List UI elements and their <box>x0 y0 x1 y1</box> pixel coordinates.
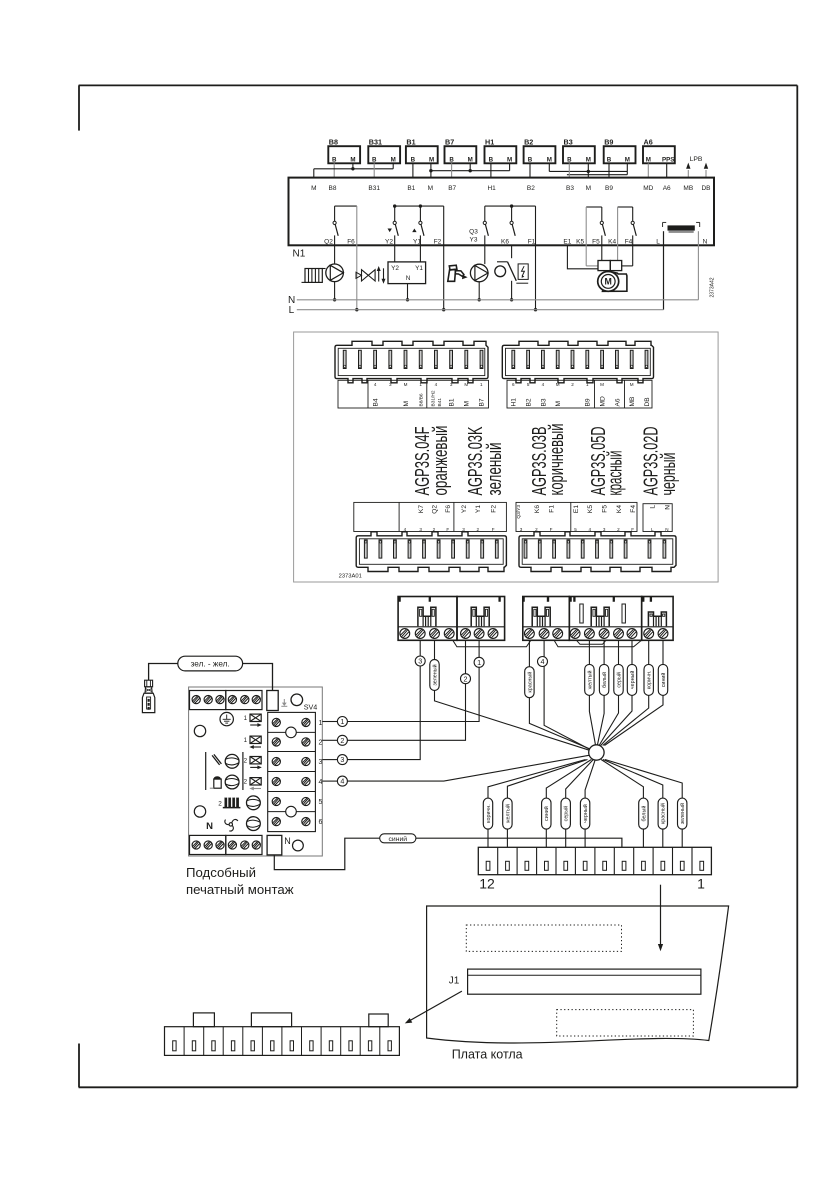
svg-text:B8: B8 <box>329 137 338 146</box>
wire to earth plug <box>149 664 178 681</box>
connector code AGP3S.03B коричневый <box>529 424 568 496</box>
svg-text:F1: F1 <box>548 505 555 513</box>
svg-text:коричневый: коричневый <box>546 424 568 496</box>
callout 1 aux <box>337 717 347 727</box>
svg-text:B7: B7 <box>445 137 454 146</box>
sensor B7 <box>445 137 477 163</box>
svg-text:B9: B9 <box>604 137 613 146</box>
pump circle 1 <box>225 754 239 768</box>
svg-text:1: 1 <box>244 737 248 744</box>
wire зеленый to plug X10 <box>605 760 682 848</box>
svg-text:зеленый: зеленый <box>484 443 506 496</box>
svg-text:M: M <box>403 401 410 407</box>
svg-text:N: N <box>406 275 411 282</box>
SV4 circle <box>291 694 303 706</box>
svg-text:5: 5 <box>527 382 530 387</box>
svg-text:1: 1 <box>340 717 344 726</box>
connector code AGP3S.02D черный <box>641 427 681 496</box>
svg-text:F4: F4 <box>630 505 637 513</box>
connector code AGP3S.05D красный <box>588 427 626 496</box>
svg-text:1: 1 <box>586 382 589 387</box>
faucet icon <box>448 265 468 281</box>
label green-yellow <box>178 656 243 671</box>
callout 3 on wire <box>415 656 425 666</box>
border frame left bottom tick <box>78 1044 80 1088</box>
callout 2 aux <box>337 735 347 745</box>
wire row 1 <box>322 721 337 723</box>
wire желтый to plug X10 <box>507 760 587 848</box>
svg-text:12: 12 <box>479 876 495 892</box>
svg-text:Q3: Q3 <box>469 229 478 236</box>
svg-text:M: M <box>555 401 562 407</box>
cable duct TB4 to TB5 <box>554 640 641 647</box>
svg-text:B2: B2 <box>524 137 533 146</box>
wire row 2 <box>322 739 337 741</box>
boiler board outline <box>427 906 729 1043</box>
radiator 2 icon <box>218 798 240 808</box>
svg-text:M: M <box>464 401 471 407</box>
earth spade plug <box>142 680 154 712</box>
label серый <box>614 664 623 695</box>
wire B2.B to terminal B2 <box>529 163 531 177</box>
sensor B1 <box>406 137 438 163</box>
svg-text:B1: B1 <box>407 185 415 192</box>
svg-text:F5: F5 <box>602 505 609 513</box>
labels E1 K5 F5 K4 F4 <box>563 239 632 246</box>
svg-text:Подсобный: Подсобный <box>186 865 256 880</box>
svg-text:H1: H1 <box>511 398 518 407</box>
terminal block TB2 <box>457 597 505 641</box>
svg-text:B7: B7 <box>448 185 456 192</box>
svg-text:B31/H2: B31/H2 <box>431 390 437 406</box>
svg-text:B9: B9 <box>585 398 592 406</box>
wire row 4 <box>322 780 337 782</box>
svg-text:Q2: Q2 <box>431 505 438 514</box>
svg-text:серый: серый <box>563 806 570 822</box>
svg-text:B: B <box>411 156 416 163</box>
svg-text:белый: белый <box>601 672 608 688</box>
wire blue from aux board <box>274 838 380 869</box>
svg-text:H1: H1 <box>485 137 494 146</box>
svg-text:F6: F6 <box>445 505 452 513</box>
transformer primary <box>663 222 700 232</box>
wire H1.B to terminal H1 <box>490 163 492 177</box>
wire F4 lead lower <box>621 265 632 267</box>
svg-text:синий: синий <box>543 806 550 821</box>
wire желтый to node <box>589 640 595 745</box>
thermostat K6 <box>495 245 528 301</box>
wire F1 <box>534 206 537 311</box>
connector J1 bar <box>468 969 701 994</box>
svg-text:Y3: Y3 <box>470 237 478 244</box>
label серый lower <box>561 798 570 829</box>
svg-text:синий: синий <box>389 835 408 843</box>
svg-text:L: L <box>656 239 660 246</box>
label зеленый lower <box>678 798 687 829</box>
bottom-right terminal tables <box>516 502 672 531</box>
svg-text:3: 3 <box>520 527 523 532</box>
svg-text:черный: черный <box>629 671 636 690</box>
svg-text:A6: A6 <box>663 185 671 192</box>
svg-text:M: M <box>646 156 651 163</box>
svg-text:4: 4 <box>435 382 438 387</box>
svg-text:MB: MB <box>629 396 636 406</box>
wire B8.B to terminal B8 <box>333 163 335 177</box>
wire pump Q3 to N rail <box>478 282 481 302</box>
svg-text:L: L <box>289 305 295 316</box>
pump Q3 <box>470 264 488 282</box>
svg-text:B31: B31 <box>369 137 382 146</box>
svg-text:1: 1 <box>480 382 483 387</box>
connector section box <box>294 332 718 582</box>
label коричн. <box>644 664 653 695</box>
wire B9.B to terminal B9 <box>608 163 610 177</box>
svg-text:B31: B31 <box>368 185 380 192</box>
wire A6.PPS to terminal A6 <box>666 163 668 177</box>
svg-text:синий: синий <box>660 673 667 688</box>
svg-text:4: 4 <box>541 657 545 666</box>
relay contact Q2 with fuse F6 <box>333 206 357 264</box>
svg-text:коричн.: коричн. <box>486 804 492 823</box>
svg-text:2: 2 <box>464 674 468 683</box>
svg-text:DB: DB <box>701 185 710 192</box>
svg-text:M: M <box>507 156 512 163</box>
wire actuator N to N rail <box>406 284 409 302</box>
connector code AGP3S.03K зеленый <box>465 426 506 495</box>
valve symbol 1 close <box>244 736 262 749</box>
svg-text:1: 1 <box>419 382 422 387</box>
svg-text:2: 2 <box>244 758 248 765</box>
connector X13 bottom-left <box>356 532 506 572</box>
svg-text:B41: B41 <box>437 398 443 407</box>
svg-text:3: 3 <box>340 755 344 764</box>
wire N lead <box>697 231 699 300</box>
bottom-left terminal table <box>354 502 507 531</box>
svg-text:E1: E1 <box>563 239 571 246</box>
svg-text:желтый: желтый <box>586 670 593 689</box>
wire row 3 <box>322 759 337 761</box>
svg-text:B8/B6: B8/B6 <box>418 393 424 406</box>
wire белый to plug X10 <box>601 760 643 848</box>
svg-text:MD: MD <box>600 396 607 406</box>
svg-text:зеленый: зеленый <box>431 664 438 685</box>
svg-text:F: F <box>446 527 449 532</box>
label красный lower <box>658 798 667 829</box>
svg-text:L: L <box>651 527 654 532</box>
label синий lower <box>542 798 551 829</box>
svg-text:F2: F2 <box>434 239 442 246</box>
svg-text:зеленый: зеленый <box>679 803 686 824</box>
svg-text:DB: DB <box>644 397 651 407</box>
svg-text:MB: MB <box>683 185 693 192</box>
svg-text:4: 4 <box>374 382 377 387</box>
svg-text:N: N <box>664 505 671 510</box>
svg-text:черный: черный <box>658 453 680 496</box>
svg-text:Плата котла: Плата котла <box>452 1048 523 1062</box>
label белый lower <box>639 798 648 829</box>
svg-text:6: 6 <box>319 819 323 826</box>
wire M bus (B2,B3,B9) to terminal M <box>549 163 627 177</box>
svg-text:2: 2 <box>218 801 222 808</box>
mixing valve icon <box>356 266 386 284</box>
wire белый to node <box>597 640 604 745</box>
wire черный to node <box>601 640 632 745</box>
label коричн. lower <box>483 798 492 829</box>
callout 2 on wire <box>461 674 471 684</box>
svg-text:A6: A6 <box>614 398 621 406</box>
svg-text:4: 4 <box>542 382 545 387</box>
label черный <box>627 664 636 695</box>
svg-text:L: L <box>650 505 657 509</box>
svg-text:Q3/Y3: Q3/Y3 <box>516 505 522 519</box>
svg-text:B: B <box>449 156 454 163</box>
svg-text:N1: N1 <box>293 249 306 260</box>
wire blue to plug X10 <box>416 838 622 847</box>
svg-text:M: M <box>429 156 434 163</box>
cable duct TB2 to TB3 <box>453 640 531 647</box>
wire B3.B to terminal B3 <box>568 163 570 177</box>
earth circle <box>220 712 233 725</box>
svg-text:1: 1 <box>697 876 705 892</box>
labels Q3 Y3 K6 F1 <box>469 229 536 246</box>
L rail <box>297 309 664 311</box>
label черный lower <box>580 798 589 829</box>
svg-text:Y1: Y1 <box>413 239 421 246</box>
svg-text:6: 6 <box>512 382 515 387</box>
wire green to node <box>435 640 590 750</box>
svg-text:H1: H1 <box>487 185 496 192</box>
labels Q2 F6 <box>324 239 355 246</box>
terminal block TB1 <box>398 597 457 641</box>
svg-text:F6: F6 <box>347 239 355 246</box>
aux board top terminal strips <box>190 691 263 710</box>
svg-text:B2: B2 <box>527 185 535 192</box>
callout 3 aux <box>337 755 347 765</box>
controller unit N1 box <box>289 178 715 246</box>
svg-text:B7: B7 <box>479 398 486 406</box>
svg-text:J1: J1 <box>449 976 460 987</box>
cable duct under TB4 <box>577 640 606 644</box>
sensor H1 <box>485 137 517 163</box>
svg-text:2: 2 <box>535 527 538 532</box>
svg-text:5: 5 <box>319 799 323 806</box>
wire F2 <box>442 206 445 311</box>
dotted footprint upper <box>466 925 621 951</box>
top-left terminal table <box>338 380 489 408</box>
actuator box Y2 Y1 N <box>388 262 426 284</box>
wire B1.B to terminal B1 <box>412 163 414 177</box>
svg-text:1: 1 <box>477 658 481 667</box>
svg-text:M: M <box>428 185 433 192</box>
svg-text:3: 3 <box>419 527 422 532</box>
wire pump Q2 to N rail <box>333 282 336 302</box>
group bars <box>206 752 243 790</box>
wire синий to node <box>604 640 663 745</box>
wire синий to plug X10 <box>546 760 591 848</box>
svg-text:F1: F1 <box>528 239 536 246</box>
svg-text:N: N <box>284 836 291 846</box>
valve symbol 2 close <box>244 778 262 791</box>
svg-text:PPS: PPS <box>662 156 674 163</box>
relay contacts Y2 Y1 with fuse F2 <box>388 204 444 261</box>
svg-text:M: M <box>600 382 604 387</box>
svg-text:2: 2 <box>319 740 323 747</box>
svg-text:K6: K6 <box>534 505 541 513</box>
svg-text:2: 2 <box>477 527 480 532</box>
svg-text:5: 5 <box>574 527 577 532</box>
svg-text:4: 4 <box>589 527 592 532</box>
terminal block TB4 <box>569 597 641 641</box>
label синий <box>658 664 667 695</box>
svg-text:B1: B1 <box>449 398 456 406</box>
svg-text:M: M <box>404 382 408 387</box>
wire красный to plug X10 <box>603 760 663 848</box>
svg-text:B4: B4 <box>373 398 380 406</box>
svg-text:N: N <box>665 527 668 532</box>
wire A6.M to terminal MD <box>647 163 649 177</box>
fan swirl icon <box>225 819 238 831</box>
N rail <box>297 299 699 301</box>
svg-text:F4: F4 <box>625 239 633 246</box>
cylinder icon <box>210 776 221 788</box>
LPB arrow DB <box>704 163 708 178</box>
svg-text:2373A01: 2373A01 <box>339 574 362 580</box>
svg-text:MD: MD <box>643 185 653 192</box>
sensor B8 <box>328 137 360 163</box>
svg-text:F2: F2 <box>491 505 498 513</box>
svg-text:N: N <box>703 239 708 246</box>
svg-text:B9: B9 <box>605 185 613 192</box>
svg-text:F: F <box>492 527 495 532</box>
svg-text:красный: красный <box>526 672 533 693</box>
svg-text:3: 3 <box>319 759 323 766</box>
callout 4 aux <box>337 776 347 786</box>
svg-text:M: M <box>464 382 468 387</box>
wire B7.B to terminal B7 <box>451 163 453 177</box>
svg-text:3: 3 <box>462 527 465 532</box>
aux board output terminal column <box>268 712 323 831</box>
svg-text:B8: B8 <box>329 185 337 192</box>
svg-text:B2: B2 <box>526 398 533 406</box>
svg-text:4: 4 <box>319 779 323 786</box>
svg-text:B: B <box>372 156 377 163</box>
wire E1 <box>567 245 598 268</box>
fuse N holder <box>267 835 282 855</box>
svg-text:F5: F5 <box>592 239 600 246</box>
svg-text:M: M <box>311 185 316 192</box>
svg-text:1: 1 <box>244 715 248 722</box>
terminal block TB3 <box>523 597 570 641</box>
relay contacts K5 F5 <box>586 207 605 266</box>
aux board bottom terminal strips <box>190 835 263 854</box>
svg-text:K4: K4 <box>616 505 623 513</box>
svg-text:оранжевый: оранжевый <box>430 426 452 496</box>
svg-text:B: B <box>567 156 572 163</box>
svg-text:B: B <box>528 156 533 163</box>
svg-text:K7: K7 <box>418 505 425 513</box>
svg-text:B: B <box>332 156 337 163</box>
svg-text:F: F <box>550 527 553 532</box>
svg-text:B: B <box>489 156 494 163</box>
svg-text:4: 4 <box>404 527 407 532</box>
wire 1 (TB2 to aux board) <box>347 640 479 721</box>
pump circle 2 <box>225 775 239 789</box>
labels L N inside controller <box>656 239 707 246</box>
sensor B2 <box>524 137 556 163</box>
wire черный to plug X10 <box>585 760 595 848</box>
label желтый <box>585 664 594 695</box>
svg-text:4: 4 <box>340 777 344 786</box>
svg-text:2: 2 <box>617 527 620 532</box>
arrow from X10 to boiler board <box>658 885 663 952</box>
label green <box>430 660 439 691</box>
svg-text:черный: черный <box>582 804 589 823</box>
aux board outline <box>189 687 323 856</box>
wire B31.B to terminal B31 <box>373 163 375 177</box>
border frame top line <box>79 84 798 86</box>
label blue <box>380 834 416 843</box>
valve symbol 2 open <box>244 757 262 770</box>
controller terminal labels <box>311 185 710 192</box>
svg-text:A6: A6 <box>644 137 653 146</box>
pump circle 4 <box>247 817 261 831</box>
wire L lead <box>663 231 665 310</box>
wire 2 (TB2 to aux board) <box>347 640 465 740</box>
arrow J1 to edge connector <box>405 991 462 1023</box>
ground mark <box>281 699 287 706</box>
labels Y2 Y1 F2 <box>385 239 442 246</box>
svg-text:M: M <box>350 156 355 163</box>
fuse SV4 holder <box>267 691 278 711</box>
svg-text:LPB: LPB <box>690 156 703 163</box>
wire red to node <box>529 640 590 749</box>
wire серый to node <box>599 640 618 745</box>
svg-text:Y2: Y2 <box>385 239 393 246</box>
svg-text:серый: серый <box>615 672 622 688</box>
sensor stick icon <box>212 754 221 765</box>
svg-text:2: 2 <box>433 527 436 532</box>
svg-text:Y1: Y1 <box>415 265 423 272</box>
border frame left top tick <box>78 85 80 130</box>
TB4 inner slots <box>580 604 626 623</box>
wire 4 (TB3 to node) <box>544 640 591 750</box>
svg-text:красный: красный <box>604 451 626 496</box>
svg-text:SV4: SV4 <box>304 703 318 712</box>
svg-text:зел. - жел.: зел. - жел. <box>191 660 230 669</box>
svg-text:K4: K4 <box>608 239 616 246</box>
wire 3 (TB1 to aux board) <box>347 640 420 759</box>
callout 4 on wire <box>538 657 548 667</box>
top-right terminal table <box>507 380 652 408</box>
svg-text:1: 1 <box>319 720 323 727</box>
wire M bus (B8,B31) to terminal M <box>314 163 393 177</box>
svg-text:B1: B1 <box>406 137 415 146</box>
svg-text:M: M <box>630 382 634 387</box>
svg-text:Y2: Y2 <box>391 265 399 272</box>
svg-text:M: M <box>586 185 591 192</box>
svg-text:2373A42: 2373A42 <box>710 277 716 297</box>
connector X14 bottom-right <box>519 532 676 572</box>
svg-text:3: 3 <box>450 382 453 387</box>
svg-text:N: N <box>206 821 213 832</box>
radiator icon <box>302 269 326 283</box>
svg-text:M: M <box>605 277 612 287</box>
wire row 4 diagonal to node <box>347 755 589 781</box>
relay coil boxes <box>598 261 622 271</box>
spare circle A <box>194 725 205 736</box>
border frame bottom line <box>79 1086 798 1088</box>
sensor B9 <box>604 137 636 163</box>
